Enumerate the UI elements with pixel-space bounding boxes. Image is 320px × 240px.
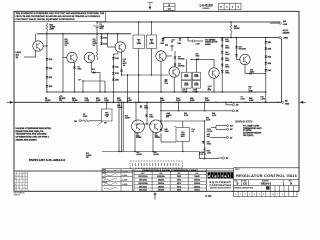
svg-text:1/2W: 1/2W	[50, 29, 55, 31]
svg-text:D37: D37	[207, 142, 210, 144]
svg-text:B: B	[290, 183, 292, 186]
svg-text:D16: D16	[115, 73, 119, 75]
svg-text:C1: C1	[100, 24, 102, 26]
svg-text:2,000: 2,000	[149, 43, 154, 45]
svg-text:R30: R30	[96, 98, 99, 100]
svg-text:2N456-B 4/7/70: 2N456-B 4/7/70	[234, 121, 253, 124]
svg-text:PMF: PMF	[93, 41, 97, 43]
svg-text:R52: R52	[206, 117, 209, 119]
svg-text:.01: .01	[171, 41, 173, 43]
svg-text:5W: 5W	[104, 123, 107, 125]
svg-text:.01: .01	[208, 88, 210, 90]
svg-text:D662: D662	[177, 176, 181, 178]
svg-text:D28: D28	[115, 79, 119, 81]
svg-text:35MFD: 35MFD	[166, 115, 172, 117]
svg-text:C13: C13	[123, 59, 126, 61]
svg-text:1,800: 1,800	[136, 43, 141, 45]
svg-text:5.1: 5.1	[249, 88, 251, 90]
svg-text:R17: R17	[93, 39, 96, 41]
svg-text:R37: R37	[86, 153, 89, 155]
svg-text:G816-0-1: G816-0-1	[261, 183, 272, 186]
svg-text:6,800: 6,800	[206, 119, 210, 121]
svg-text:1/8W: 1/8W	[65, 43, 69, 45]
svg-text:1W: 1W	[86, 157, 89, 159]
svg-text:(6,800): (6,800)	[86, 155, 92, 157]
svg-text:D18: D18	[103, 43, 107, 45]
svg-text:OR EQUIV): OR EQUIV)	[243, 135, 254, 137]
svg-text:REGULATOR CONTROL G816: REGULATOR CONTROL G816	[236, 173, 298, 178]
svg-text:1,500: 1,500	[207, 153, 211, 155]
svg-text:L2001: L2001	[16, 52, 21, 54]
svg-text:R15: R15	[65, 39, 68, 41]
svg-text:6,800: 6,800	[83, 116, 87, 118]
svg-text:D52: D52	[268, 48, 272, 50]
svg-text:1,800: 1,800	[241, 99, 245, 101]
svg-text:D27: D27	[225, 52, 228, 54]
svg-text:PMF: PMF	[65, 41, 69, 43]
svg-text:EQUIPMENT: EQUIPMENT	[210, 182, 232, 184]
svg-text:D668: D668	[177, 190, 181, 192]
svg-text:MFD: MFD	[100, 28, 105, 30]
svg-text:D18: D18	[49, 86, 53, 88]
svg-text:d: d	[208, 174, 210, 178]
svg-text:D16: D16	[103, 37, 107, 39]
svg-text:D672: D672	[177, 186, 181, 188]
svg-text:C133: C133	[207, 129, 211, 131]
svg-text:B: B	[237, 183, 239, 186]
svg-text:P, WE: P, WE	[205, 195, 212, 198]
svg-text:g: g	[215, 174, 217, 178]
svg-text:D25: D25	[225, 45, 228, 47]
svg-text:D29: D29	[225, 58, 228, 60]
svg-text:D33: D33	[225, 71, 228, 73]
svg-text:6,800: 6,800	[205, 100, 210, 102]
svg-text:680: 680	[207, 136, 210, 138]
svg-text:D670: D670	[177, 183, 181, 185]
svg-text:D13: D13	[115, 58, 119, 60]
svg-text:R9: R9	[83, 114, 85, 116]
svg-text:Q10: Q10	[239, 47, 242, 49]
svg-text:C1,200: C1,200	[207, 131, 213, 133]
svg-text:1-0-8183: 1-0-8183	[199, 4, 213, 8]
svg-text:6,800: 6,800	[190, 100, 195, 102]
svg-text:1/2: 1/2	[16, 57, 19, 59]
svg-text:.01: .01	[123, 61, 125, 63]
svg-text:15,000: 15,000	[45, 100, 51, 102]
svg-text:1N3612: 1N3612	[194, 186, 200, 188]
svg-text:D11: D11	[115, 67, 118, 69]
svg-text:DEC3009: DEC3009	[139, 190, 147, 192]
svg-text:CS: CS	[243, 183, 247, 186]
svg-text:R5: R5	[45, 98, 47, 100]
svg-text:R39: R39	[207, 151, 210, 153]
svg-text:L10: L10	[104, 98, 107, 100]
svg-text:+C3: +C3	[59, 96, 62, 98]
svg-text:1/8W: 1/8W	[93, 43, 97, 45]
svg-text:R32: R32	[117, 98, 120, 100]
svg-text:D23: D23	[225, 39, 228, 41]
svg-text:1N3606: 1N3606	[194, 180, 200, 182]
svg-text:R37: R37	[205, 98, 208, 100]
svg-text:6,800: 6,800	[100, 26, 105, 28]
svg-text:GND: GND	[284, 37, 289, 39]
svg-text:C29: C29	[85, 98, 88, 100]
svg-text:t: t	[222, 174, 223, 178]
svg-text:D31: D31	[225, 64, 228, 66]
svg-text:C31: C31	[127, 98, 130, 100]
svg-text:C5: C5	[241, 97, 243, 99]
svg-text:R38: R38	[207, 134, 210, 136]
svg-text:.01: .01	[162, 41, 164, 43]
svg-text:PRINTED CIRCUIT REV.: PRINTED CIRCUIT REV.	[234, 187, 254, 189]
svg-text:1N3609: 1N3609	[194, 183, 200, 185]
svg-text:C.05: C.05	[200, 154, 204, 156]
svg-text:TO SERIES: TO SERIES	[205, 39, 216, 41]
svg-text:R58: R58	[249, 86, 252, 88]
svg-text:82 MFD: 82 MFD	[59, 98, 66, 100]
svg-text:8,200: 8,200	[184, 115, 188, 117]
svg-text:2N3009: 2N3009	[158, 190, 164, 192]
svg-text:+10V: +10V	[283, 24, 288, 26]
svg-text:+C13: +C13	[208, 86, 212, 88]
svg-text:D30: D30	[250, 70, 253, 72]
svg-text:D51: D51	[268, 42, 272, 44]
svg-text:GND: GND	[285, 103, 290, 105]
svg-text:TO +TEMP COMP: TO +TEMP COMP	[243, 125, 260, 127]
svg-text:D16: D16	[49, 77, 53, 79]
svg-text:10,000: 10,000	[234, 28, 240, 30]
svg-text:D33: D33	[268, 56, 272, 58]
svg-text:(CORRESPONDING: (CORRESPONDING	[243, 132, 262, 134]
svg-text:DEC3009: DEC3009	[239, 49, 246, 51]
svg-text:BF: BF	[79, 80, 81, 82]
svg-text:R28: R28	[72, 98, 75, 100]
svg-text:D12: D12	[49, 59, 53, 61]
